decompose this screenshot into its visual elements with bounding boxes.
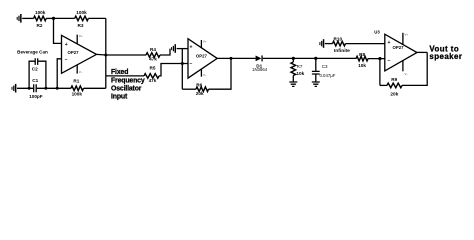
- wire U2 output: [217, 57, 255, 59]
- wire R10 to noninverting U3: [346, 43, 385, 45]
- wire N1 to R3: [54, 17, 75, 19]
- svg-text:R1: R1: [73, 78, 79, 83]
- svg-text:R7: R7: [297, 64, 303, 69]
- wire C1 to R1: [37, 87, 71, 89]
- svg-text:20k: 20k: [390, 92, 398, 97]
- wire U3 output: [417, 51, 427, 53]
- jack J2 antenna input: [12, 84, 34, 93]
- diode D1 1N3664: [252, 55, 268, 72]
- wire R5 branch: [106, 75, 144, 77]
- svg-text:V+: V+: [405, 33, 409, 37]
- svg-text:Fixed: Fixed: [111, 69, 128, 76]
- node inverting U3 junction: [378, 57, 381, 60]
- jack J1 input: [17, 14, 34, 23]
- svg-text:Frequency: Frequency: [111, 77, 145, 84]
- wire beverage loop: [29, 61, 46, 88]
- op-amp U3 OP27: [374, 29, 417, 76]
- node R7 junction: [292, 57, 295, 60]
- svg-text:OP27: OP27: [196, 54, 208, 59]
- wire U3 feedback down: [379, 59, 381, 86]
- svg-text:OP27: OP27: [393, 45, 405, 50]
- svg-text:47k: 47k: [149, 78, 157, 83]
- svg-text:Beverage Can: Beverage Can: [17, 49, 48, 54]
- svg-text:C1: C1: [32, 78, 38, 83]
- wire D1 to R7: [263, 57, 294, 59]
- wire R1 to feedback bus: [84, 87, 106, 89]
- svg-text:+: +: [190, 44, 193, 50]
- wire U1 output: [97, 53, 147, 56]
- node inverting stem junction: [56, 87, 59, 90]
- svg-text:R5: R5: [150, 66, 156, 71]
- wire R4 jog up to J3: [160, 49, 170, 55]
- wire R3 to feedback corner: [88, 17, 105, 19]
- svg-text:Oscillator: Oscillator: [111, 86, 142, 93]
- wire U2 feedback down: [181, 49, 183, 90]
- svg-text:C3: C3: [322, 64, 328, 69]
- svg-text:R10: R10: [333, 36, 342, 41]
- svg-text:47k: 47k: [149, 56, 157, 61]
- resistor R1: [71, 78, 84, 96]
- svg-text:V−: V−: [405, 72, 409, 76]
- svg-text:−: −: [388, 58, 391, 64]
- svg-text:20k: 20k: [196, 91, 204, 96]
- wire N1 stem to noninverting input U1: [54, 18, 62, 43]
- svg-text:R8: R8: [359, 52, 365, 57]
- svg-text:100k: 100k: [76, 10, 87, 15]
- svg-text:+: +: [388, 40, 391, 46]
- wire R8 to inverting U3: [368, 58, 385, 60]
- svg-text:OP27: OP27: [68, 50, 80, 55]
- capacitor C2 beverage can: [32, 58, 38, 71]
- resistor R4: [146, 47, 160, 62]
- svg-text:100pF: 100pF: [29, 94, 43, 99]
- resistor R6 feedback: [182, 58, 231, 96]
- capacitor C3: [312, 58, 336, 81]
- wire C3 to R8: [316, 57, 356, 59]
- svg-text:V+: V+: [203, 40, 207, 44]
- ground below C3: [312, 82, 320, 86]
- node output U1 junction: [104, 54, 107, 57]
- svg-text:C2: C2: [32, 67, 38, 72]
- svg-text:speaker: speaker: [429, 52, 462, 61]
- label Fixed Frequency Oscillator Input: [111, 69, 145, 101]
- svg-text:V−: V−: [203, 73, 207, 77]
- resistor R5: [144, 66, 159, 84]
- wire R7 to C3: [293, 57, 316, 59]
- jack J3: [171, 44, 188, 53]
- resistor R7: [291, 58, 305, 81]
- svg-text:Input: Input: [111, 94, 128, 101]
- ground below R7: [289, 82, 297, 86]
- svg-text:R2: R2: [37, 23, 43, 28]
- node C3 junction: [314, 57, 317, 60]
- label Vout to speaker: [429, 44, 462, 61]
- svg-text:−: −: [190, 61, 193, 67]
- node N1 junction: [52, 17, 55, 20]
- resistor R2: [34, 10, 47, 28]
- resistor R10: [333, 36, 351, 53]
- node inverting U2 junction: [181, 62, 184, 65]
- label mask: [107, 66, 140, 102]
- jack J4: [319, 39, 332, 48]
- svg-text:R3: R3: [78, 23, 84, 28]
- wire R5 jog up to inverting input U2: [159, 64, 188, 76]
- svg-text:1N3664: 1N3664: [252, 67, 268, 72]
- node loop right junction: [44, 87, 47, 90]
- svg-text:R6: R6: [196, 82, 202, 87]
- wire feedback vertical bus: [105, 18, 107, 88]
- svg-text:R4: R4: [150, 47, 156, 52]
- svg-text:−: −: [65, 57, 68, 63]
- capacitor C1: [29, 78, 43, 99]
- svg-text:U3: U3: [374, 29, 380, 34]
- wire R2 to node N1: [46, 17, 53, 19]
- svg-text:10k: 10k: [358, 63, 366, 68]
- resistor R3: [75, 10, 89, 28]
- resistor R8: [356, 52, 368, 68]
- node U2 output junction: [230, 57, 233, 60]
- wire inverting input U1 down: [57, 59, 61, 89]
- svg-text:100k: 100k: [72, 91, 83, 96]
- op-amp U2 OP27: [188, 39, 217, 78]
- node loop left junction: [28, 87, 31, 90]
- svg-text:10k: 10k: [296, 71, 304, 76]
- op-amp U1 OP27: [62, 34, 97, 74]
- svg-text:0.047µF: 0.047µF: [319, 73, 335, 78]
- svg-text:V−: V−: [79, 70, 83, 74]
- svg-text:Infinite: Infinite: [334, 48, 350, 54]
- resistor R9 feedback: [380, 52, 427, 96]
- svg-text:+: +: [65, 42, 68, 48]
- svg-text:100k: 100k: [35, 10, 46, 15]
- svg-text:R9: R9: [391, 77, 397, 82]
- svg-text:V+: V+: [79, 34, 83, 38]
